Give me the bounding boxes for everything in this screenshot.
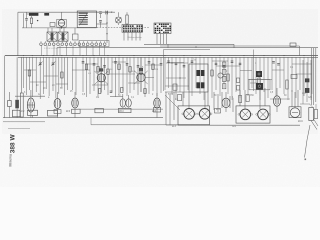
capacitor C29 C30 — [237, 78, 240, 90]
wire V9 leads — [225, 92, 227, 112]
wire rail jog b — [195, 46, 197, 48]
coil L8 input — [20, 57, 23, 117]
resistor R24 — [239, 96, 242, 103]
capacitor C1 — [25, 12, 28, 28]
capacitor C28 on rail — [106, 11, 112, 15]
tube V10 (oval) — [273, 96, 280, 106]
wire mesh links AF-PSU — [165, 61, 312, 86]
resistor R2 — [126, 12, 128, 25]
wire link T1 to V2 — [97, 12, 116, 24]
wire shield panel left — [164, 50, 211, 92]
content tint — [2, 9, 318, 134]
capacitor group C6-C13 — [82, 62, 163, 68]
terminal box under V5b — [54, 110, 61, 114]
wire drops to output blocks — [183, 88, 298, 109]
junction dots on anode rail — [23, 55, 305, 56]
terminal box under V6 — [72, 109, 81, 113]
tube V5b (oval) — [54, 99, 61, 109]
tube V13 rectifier — [238, 109, 253, 120]
wire chassis rail right — [178, 124, 300, 126]
wire antenna lead — [4, 56, 6, 118]
wire lower rail b — [78, 108, 163, 110]
wire shield panel right — [253, 50, 255, 92]
choke L1 — [27, 13, 39, 16]
wire V5 leads — [30, 90, 32, 118]
switch S2 wafer block — [154, 23, 171, 34]
wire V6 leads — [74, 92, 76, 118]
tube V5 (oval) — [27, 98, 34, 112]
wire rail jog a — [167, 44, 169, 47]
node speck — [305, 159, 307, 161]
resistor R15 — [258, 78, 260, 87]
tube V16 diode small — [218, 73, 223, 78]
coil L3 L4 tuning (hatched) — [47, 32, 68, 41]
wire lower rail a — [15, 95, 45, 97]
tube V9 (oval) — [222, 98, 230, 107]
antenna trimmer CA — [8, 92, 12, 118]
resistor R12 — [99, 89, 101, 94]
wire top rail of RF box — [18, 11, 113, 13]
resistor R25 — [246, 95, 249, 102]
resistor R14 — [144, 89, 146, 94]
wire AF links — [166, 62, 188, 78]
tube V8 (oval) — [154, 98, 161, 108]
tube V3 EF9 IF amp — [95, 57, 108, 92]
wire drops from mid rail — [48, 28, 75, 34]
switch contact row S3 — [40, 41, 109, 50]
wire speaker lead — [305, 125, 311, 158]
resistor R22 — [178, 95, 182, 101]
tube V12 output — [197, 109, 212, 120]
resistor ladder R26-R29 — [223, 62, 226, 89]
tube V2 mixer — [116, 12, 122, 25]
wire group pre-output nets — [166, 92, 178, 125]
wire rail drop a — [56, 48, 58, 56]
tube V1 triode — [57, 12, 66, 28]
capacitor C14 — [110, 91, 113, 93]
label under S1 — [128, 36, 143, 39]
wire chassis stub — [3, 121, 45, 123]
wire right edge pair — [312, 48, 316, 105]
resistor group R5-R11 — [85, 64, 154, 75]
wire left side of RF box — [18, 12, 24, 55]
wire mesh links tuner — [24, 70, 68, 84]
fuse box on rail — [290, 43, 296, 47]
wire dashed AVC line — [80, 27, 150, 29]
wire group tuner section nets — [23, 57, 67, 99]
terminal box under V7 — [119, 108, 132, 112]
wire main anode rail — [5, 55, 318, 57]
transformer T1 IF can — [77, 11, 96, 28]
capacitor group C15-C22 — [167, 61, 241, 67]
wire V5b leads — [57, 92, 59, 118]
tube V4 EBF2 demod — [134, 57, 154, 92]
wire S2 tails — [157, 34, 167, 45]
wire group speaker feed — [270, 60, 311, 104]
paper grain overlay — [0, 0, 320, 187]
resistor R17 — [227, 74, 229, 81]
choke L10 — [305, 88, 309, 93]
wire rail net HT3 — [57, 47, 318, 49]
wire heater rail — [18, 56, 318, 58]
wire group between output blocks — [214, 92, 233, 113]
wire V7 leads — [123, 94, 129, 108]
wire junction column — [106, 11, 107, 43]
wire lower rail c — [165, 91, 189, 93]
speaker LS1 — [309, 104, 318, 130]
wire rail net HT2 — [160, 45, 300, 47]
resistor R13 — [121, 88, 123, 93]
transformer T2 IF can — [189, 64, 208, 92]
wire rail net HT1 — [144, 43, 234, 45]
label scatter small values — [20, 60, 313, 129]
terminal box under V8 — [153, 108, 160, 112]
wire chassis rail left — [3, 117, 163, 119]
wire V8 leads — [156, 93, 158, 118]
wire group IF section nets — [73, 57, 166, 97]
capacitor C5 variable — [51, 62, 55, 67]
wire chassis rail mid — [91, 118, 178, 125]
caption 388 W — [10, 134, 17, 154]
resistor R18 — [211, 70, 213, 76]
wire rail drop b — [233, 44, 235, 47]
capacitor C25 electrolytic — [256, 83, 263, 90]
capacitor C24 electrolytic — [256, 71, 262, 77]
trimmer CT1 — [50, 23, 55, 27]
capacitor C2 — [99, 12, 102, 18]
resistor R4 — [61, 72, 63, 78]
caption Minerva — [9, 154, 13, 167]
resistor R21 — [173, 84, 177, 90]
wire PSU box — [248, 80, 272, 90]
wire V10 leads — [276, 88, 278, 112]
resistor R20 — [95, 108, 103, 112]
wire rail drop c — [299, 46, 301, 56]
wire S1 tails — [124, 32, 140, 40]
wire lower rail d — [110, 95, 123, 97]
choke L9 — [305, 78, 309, 82]
wire chassis stub2 — [8, 128, 30, 130]
resistor R23 — [291, 75, 297, 79]
capacitor C3 — [99, 21, 102, 28]
coil L7 antenna (bar) — [15, 57, 19, 117]
choke L2 — [44, 13, 49, 16]
capacitor C26 block — [28, 110, 38, 117]
label group IF values — [88, 69, 158, 75]
tube V7 twin diode — [120, 99, 131, 107]
transformer T4 mains box — [236, 106, 270, 123]
capacitor C23 — [272, 62, 280, 66]
wire group switch to bus — [42, 45, 105, 55]
capacitor C4 variable — [39, 62, 43, 67]
wire group AF and PSU nets — [169, 57, 313, 100]
tube V14 rectifier — [256, 109, 271, 120]
wire AF slant — [165, 95, 180, 110]
tube V15 magic eye — [289, 107, 301, 118]
tube V11 output — [182, 109, 197, 120]
transformer T3 output box — [178, 106, 210, 125]
switch S1 wafer block — [122, 25, 143, 33]
resistor R16 — [286, 80, 288, 89]
trimmer CT2 — [73, 34, 79, 40]
tube V6 (oval) — [72, 98, 79, 108]
label group tuner values — [36, 85, 63, 90]
node A — [37, 20, 62, 29]
resistor R19 — [13, 110, 21, 117]
resistor R1 — [30, 16, 32, 28]
resistor R3 — [28, 70, 30, 76]
capacitor C27 block — [48, 110, 58, 116]
wire mid rail of RF box — [22, 27, 97, 29]
wire mesh links IF — [72, 62, 160, 85]
